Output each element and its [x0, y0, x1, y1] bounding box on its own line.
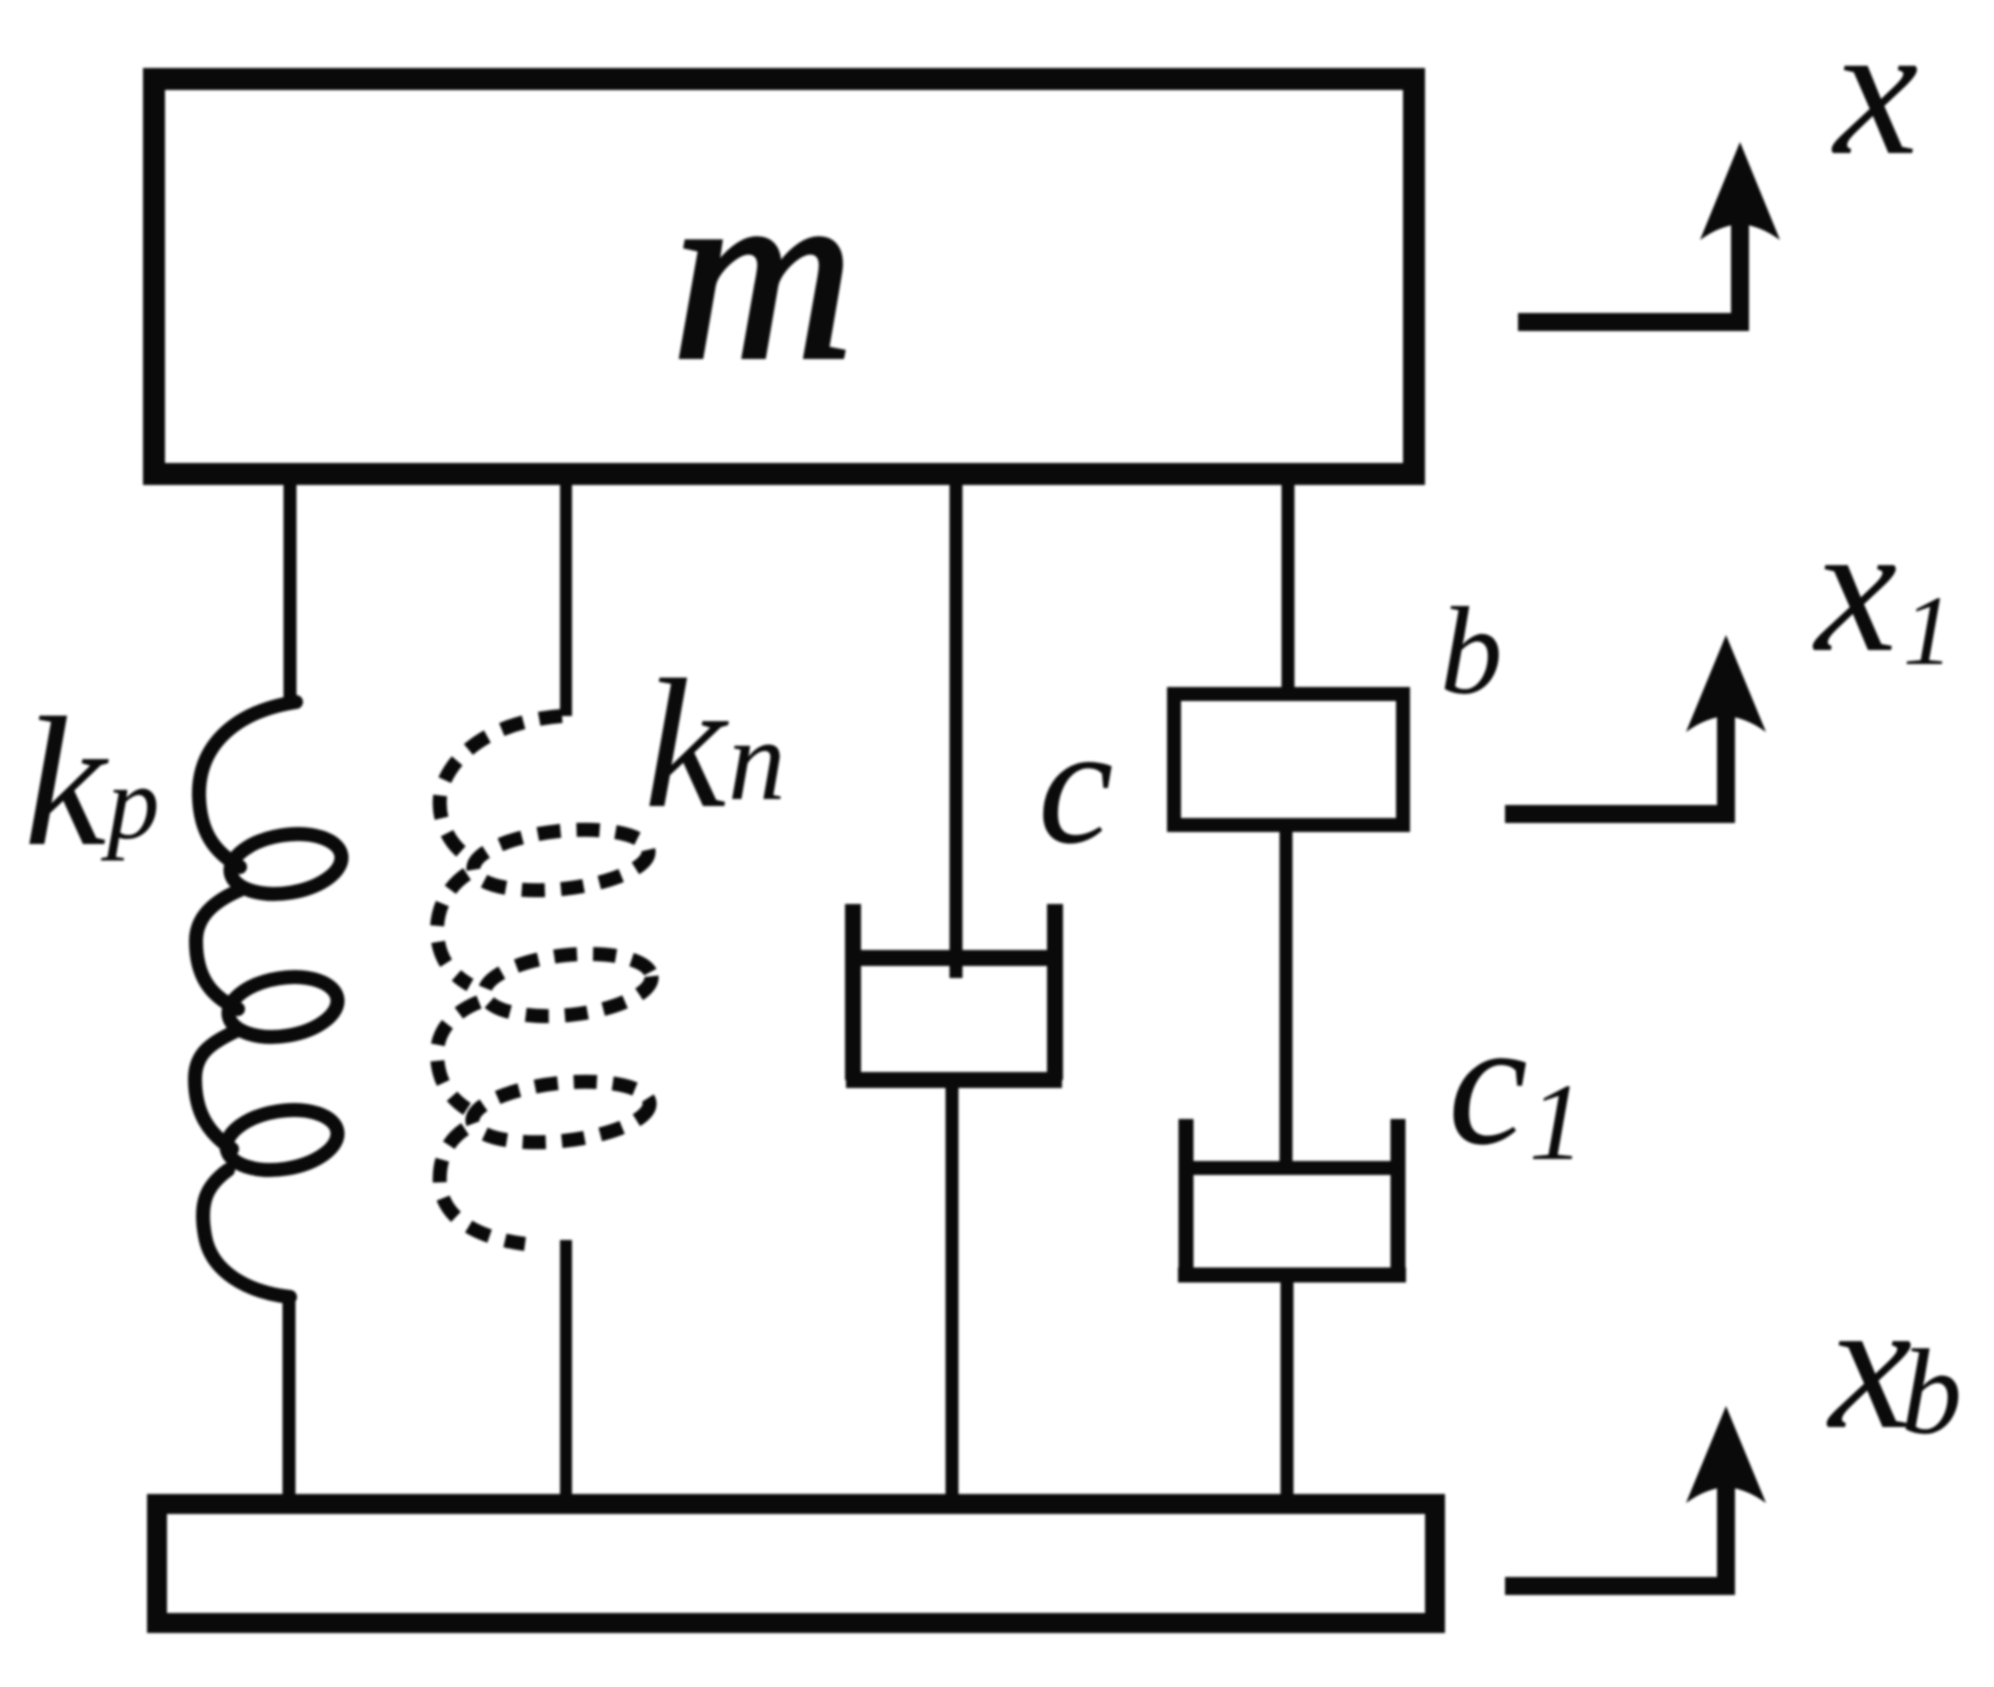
- spring kn (dashed): [437, 716, 655, 1244]
- damper c cup: [846, 904, 1062, 1080]
- svg-text:n: n: [728, 697, 786, 824]
- svg-text:b: b: [1901, 1325, 1962, 1460]
- svg-text:x: x: [1826, 1261, 1912, 1468]
- wire from spring kn to base: [560, 1240, 572, 1500]
- damper c piston: [846, 950, 1062, 966]
- arrow xb: [1505, 1465, 1726, 1586]
- arrow x1: [1505, 693, 1726, 814]
- svg-text:k: k: [644, 642, 729, 847]
- wire from spring kp to base: [283, 1295, 296, 1500]
- svg-text:c: c: [1448, 983, 1528, 1182]
- svg-text:1: 1: [1529, 1061, 1584, 1183]
- svg-text:p: p: [100, 744, 160, 861]
- wire from mass to spring kn: [560, 485, 572, 716]
- wire from mass to spring kp: [284, 485, 297, 705]
- svg-text:m: m: [672, 132, 854, 412]
- damper c1 piston: [1180, 1161, 1404, 1175]
- svg-text:c: c: [1038, 691, 1113, 879]
- svg-text:x: x: [1831, 0, 1918, 195]
- arrow x: [1518, 200, 1740, 322]
- base block: [157, 1504, 1435, 1623]
- svg-text:k: k: [24, 680, 109, 885]
- damper c1 cup: [1178, 1119, 1406, 1275]
- wire from damper c to base: [946, 1080, 959, 1500]
- friction element b box: [1174, 694, 1403, 825]
- wire from b to damper c1: [1280, 825, 1293, 1168]
- svg-text:b: b: [1440, 583, 1503, 721]
- spring kp: [195, 702, 346, 1297]
- wire from damper c1 to base: [1281, 1275, 1294, 1500]
- svg-text:x: x: [1812, 486, 1897, 691]
- wire from mass to damper c piston rod: [950, 485, 963, 978]
- mass block m: [154, 79, 1414, 474]
- wire from mass to friction element b: [1282, 485, 1295, 694]
- svg-text:1: 1: [1903, 575, 1953, 686]
